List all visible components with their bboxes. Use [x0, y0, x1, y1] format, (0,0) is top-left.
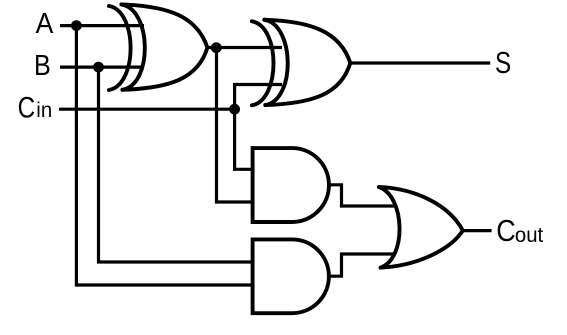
svg-text:S: S: [495, 45, 511, 80]
svg-text:out: out: [515, 224, 544, 247]
svg-text:A: A: [36, 7, 54, 39]
svg-text:C: C: [18, 90, 36, 124]
svg-text:in: in: [36, 99, 52, 122]
svg-text:C: C: [496, 215, 515, 249]
svg-text:B: B: [34, 48, 51, 81]
